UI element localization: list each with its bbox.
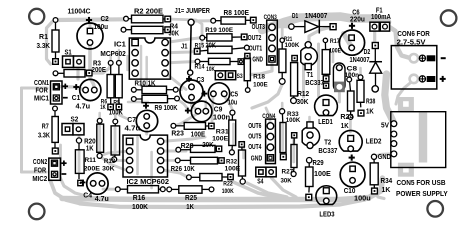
svg-text:C3: C3 bbox=[197, 77, 205, 84]
label OUT5 bbox=[248, 132, 261, 141]
capacitor C7 bbox=[125, 103, 158, 133]
mounting hole top-left bbox=[29, 9, 44, 24]
resistor R34 bbox=[370, 154, 392, 194]
wire trace CON2 right vertical bbox=[59, 145, 62, 172]
svg-text:100n: 100n bbox=[345, 72, 359, 79]
wire trace R32 interior bbox=[242, 142, 245, 158]
svg-text:OUT2: OUT2 bbox=[248, 33, 262, 42]
svg-text:20K: 20K bbox=[206, 42, 217, 49]
capacitor C1 bbox=[72, 79, 101, 110]
wire trace inside C6 bbox=[344, 34, 352, 48]
svg-text:220u: 220u bbox=[350, 15, 365, 24]
svg-text:1K: 1K bbox=[186, 204, 194, 211]
connector CON5 USB bbox=[378, 97, 448, 198]
wire trace C8 bottom down bbox=[338, 93, 341, 102]
svg-text:BC337: BC337 bbox=[305, 80, 324, 87]
svg-text:CON1: CON1 bbox=[34, 80, 49, 87]
jumper J1 bbox=[175, 6, 211, 75]
svg-text:1K: 1K bbox=[86, 145, 94, 152]
svg-text:R7: R7 bbox=[42, 121, 49, 130]
svg-text:10K: 10K bbox=[206, 66, 215, 73]
svg-text:IC1: IC1 bbox=[114, 39, 126, 48]
connector CON6 bbox=[391, 29, 445, 89]
wire trace R10 pad stub bbox=[176, 88, 182, 91]
jumper S1 bbox=[63, 50, 85, 68]
svg-text:3.3K: 3.3K bbox=[38, 130, 51, 139]
resistor R13 bbox=[102, 119, 120, 173]
wire trace R6 top stub bbox=[109, 55, 111, 61]
resistor R4 bbox=[121, 23, 179, 37]
diode D1 bbox=[289, 11, 336, 34]
wire trace IC1 pin to R19 bbox=[166, 38, 201, 43]
svg-text:20K: 20K bbox=[202, 142, 214, 149]
resistor R10 bbox=[131, 81, 178, 94]
wire trace MIC2 curve bbox=[58, 173, 88, 197]
svg-text:4.7u: 4.7u bbox=[76, 101, 91, 110]
wire trace USB tongue bbox=[419, 113, 427, 163]
svg-text:BC337: BC337 bbox=[318, 148, 337, 155]
resistor R2 bbox=[124, 6, 171, 23]
svg-text:R19 100E: R19 100E bbox=[205, 27, 233, 34]
resistor R7 bbox=[38, 106, 58, 154]
wire trace IC1 pin to R14 bbox=[166, 62, 197, 63]
svg-text:FOR: FOR bbox=[36, 88, 48, 95]
svg-text:R23: R23 bbox=[171, 130, 184, 137]
svg-text:100K: 100K bbox=[109, 109, 123, 116]
svg-text:1N4007: 1N4007 bbox=[305, 11, 328, 20]
capacitor C6 bbox=[339, 7, 365, 55]
resistor R25 bbox=[167, 186, 214, 211]
resistor R6 bbox=[100, 61, 114, 112]
diode D2 bbox=[350, 43, 383, 93]
wire trace C3 bottom bbox=[192, 99, 197, 109]
mounting hole top-right bbox=[441, 10, 457, 26]
wire trace C7 down bbox=[145, 127, 148, 134]
wire trace CON2 curve to bus bbox=[51, 181, 81, 204]
svg-text:100K: 100K bbox=[286, 117, 301, 124]
svg-text:S1: S1 bbox=[65, 50, 72, 57]
svg-text:R8 100E: R8 100E bbox=[224, 8, 250, 17]
svg-text:100mA: 100mA bbox=[371, 14, 391, 21]
wire trace 5V power band bbox=[385, 74, 394, 123]
label 11004C bbox=[68, 6, 91, 15]
svg-text:R31: R31 bbox=[216, 128, 229, 135]
svg-text:100K: 100K bbox=[285, 42, 300, 49]
wire trace left edge vertical bbox=[20, 88, 23, 172]
resistor R8 bbox=[211, 8, 256, 24]
svg-text:R1: R1 bbox=[39, 32, 48, 41]
wire trace R1 to R2 top band bbox=[56, 19, 125, 28]
svg-text:S3: S3 bbox=[237, 73, 243, 80]
svg-text:OUT5: OUT5 bbox=[248, 132, 261, 141]
LED LED3 bbox=[316, 186, 337, 219]
svg-text:MCP602: MCP602 bbox=[100, 49, 125, 58]
wire trace C9 right up bbox=[205, 101, 208, 108]
wire trace T1 left vertical bbox=[302, 64, 305, 97]
wire trace R24 pad down bbox=[349, 119, 352, 132]
svg-text:200E: 200E bbox=[84, 165, 101, 172]
resistor R15 bbox=[194, 42, 249, 54]
connector CON4 bbox=[262, 113, 275, 163]
wire trace IC1 pin to R15 bbox=[166, 51, 197, 52]
wire trace CON1 to C1 bbox=[56, 87, 83, 90]
svg-text:10u: 10u bbox=[228, 100, 237, 107]
svg-text:R9 100K: R9 100K bbox=[155, 103, 179, 112]
transistor T1 bbox=[301, 42, 324, 87]
svg-text:MIC1: MIC1 bbox=[34, 95, 49, 102]
svg-text:100n: 100n bbox=[213, 115, 230, 122]
mounting hole bottom-left bbox=[29, 204, 45, 220]
svg-text:1K: 1K bbox=[382, 187, 391, 194]
svg-text:4.7u: 4.7u bbox=[95, 194, 109, 203]
svg-text:100K: 100K bbox=[222, 188, 234, 195]
fuse F1 bbox=[370, 6, 391, 31]
wire trace IC1 interior b bbox=[145, 57, 148, 86]
svg-text:T1: T1 bbox=[307, 72, 314, 79]
resistor R29 bbox=[306, 158, 332, 201]
capacitor C9 bbox=[185, 101, 230, 122]
svg-text:CON5 FOR USB: CON5 FOR USB bbox=[397, 178, 446, 187]
wire trace D1 to CON3 bbox=[277, 25, 289, 28]
resistor R26 bbox=[171, 157, 224, 173]
resistor R33 bbox=[280, 109, 301, 160]
wire trace IC2 interior a bbox=[136, 137, 139, 174]
wire trace R34 to bus bbox=[375, 192, 385, 199]
svg-text:R25: R25 bbox=[185, 195, 197, 202]
resistor R22 bbox=[187, 174, 234, 195]
svg-text:R12: R12 bbox=[297, 91, 309, 98]
svg-text:T2: T2 bbox=[324, 140, 331, 147]
resistor R14 bbox=[195, 58, 244, 73]
svg-text:200E: 200E bbox=[92, 67, 107, 74]
resistor R23 bbox=[171, 123, 214, 139]
svg-text:C9: C9 bbox=[214, 107, 223, 114]
svg-text:R18: R18 bbox=[253, 74, 265, 81]
svg-text:R2 200E: R2 200E bbox=[134, 6, 163, 15]
wire trace IC2 to CON4 row2 bbox=[162, 150, 186, 153]
LED LED1 bbox=[315, 95, 338, 126]
resistor R38 bbox=[357, 75, 375, 116]
svg-text:R24: R24 bbox=[340, 114, 353, 121]
label OUT1 bbox=[249, 43, 263, 52]
svg-text:100E: 100E bbox=[191, 131, 206, 138]
svg-text:D2: D2 bbox=[364, 49, 371, 56]
svg-text:LED3: LED3 bbox=[319, 210, 334, 219]
wire trace C8 left stub bbox=[332, 52, 335, 62]
resistor R19 bbox=[200, 27, 247, 41]
wire trace F1 to CON6 bbox=[388, 26, 411, 58]
wire trace left CON1 stub bbox=[22, 87, 48, 90]
label OUT3 bbox=[252, 22, 265, 31]
wire trace bottom bus bbox=[62, 178, 383, 200]
svg-text:3.3K: 3.3K bbox=[37, 41, 51, 50]
wire trace R24 top stub bbox=[348, 70, 351, 77]
svg-text:R14: R14 bbox=[195, 64, 205, 71]
wire trace IC2 interior b bbox=[150, 152, 153, 188]
svg-text:R27: R27 bbox=[282, 168, 294, 175]
wire trace T1-R17 vertical bbox=[317, 44, 320, 96]
svg-text:100E: 100E bbox=[329, 48, 341, 55]
capacitor C2 bbox=[77, 14, 109, 49]
svg-text:R20: R20 bbox=[84, 138, 96, 145]
resistor R17 bbox=[322, 38, 341, 81]
wire trace R31 interior bbox=[232, 124, 235, 144]
svg-text:OUT6: OUT6 bbox=[248, 121, 261, 130]
resistor R16 bbox=[115, 186, 165, 211]
wire trace S1 down bbox=[76, 62, 79, 79]
op-amp IC2 bbox=[123, 135, 169, 186]
wire trace R13 top stub bbox=[114, 114, 117, 119]
wire trace IC2 left to R11 bbox=[100, 151, 129, 156]
op-amp IC1 bbox=[100, 38, 170, 79]
wire trace J1 to R8 pad bbox=[194, 19, 211, 22]
svg-text:1K: 1K bbox=[341, 123, 349, 130]
svg-text:100E: 100E bbox=[314, 171, 331, 178]
svg-text:R5: R5 bbox=[113, 99, 120, 106]
wire trace R20 interior bbox=[78, 150, 81, 172]
svg-text:100u: 100u bbox=[354, 194, 371, 203]
wire trace band to R21 bbox=[281, 24, 284, 38]
jumper S2 bbox=[62, 117, 84, 135]
transistor T2 bbox=[302, 122, 337, 155]
svg-text:OUT4: OUT4 bbox=[248, 142, 261, 151]
resistor R21 bbox=[279, 36, 300, 84]
wire trace left CON2 stub bbox=[22, 171, 47, 174]
wire trace IC1 interior a bbox=[140, 46, 143, 86]
svg-text:S2: S2 bbox=[71, 117, 79, 124]
wire trace R27 interior bbox=[292, 138, 295, 162]
svg-text:J1: J1 bbox=[181, 44, 188, 51]
svg-text:C5: C5 bbox=[231, 92, 239, 99]
wire trace left of R1 bbox=[47, 22, 53, 64]
wire trace R3 to R6 bbox=[89, 64, 111, 73]
svg-text:R17: R17 bbox=[330, 38, 340, 45]
resistor R12 bbox=[291, 56, 310, 107]
wire trace C5 to R31 diag bbox=[224, 96, 232, 110]
wire trace S2 to R20 bbox=[78, 134, 81, 139]
capacitor C5 bbox=[201, 83, 238, 107]
connector CON1 bbox=[34, 80, 68, 104]
resistor R24 bbox=[340, 77, 354, 130]
svg-text:100u: 100u bbox=[94, 22, 109, 31]
resistor R20 bbox=[75, 138, 95, 186]
wire trace F1 left to D2 bbox=[373, 29, 376, 42]
svg-text:R11: R11 bbox=[85, 157, 97, 164]
svg-text:R38: R38 bbox=[366, 99, 375, 106]
svg-text:R29: R29 bbox=[313, 160, 324, 167]
wire trace IC1 left edge stub bbox=[126, 56, 129, 70]
label OUT4 bbox=[248, 142, 261, 151]
svg-text:R13: R13 bbox=[104, 158, 116, 165]
svg-text:R10 1K: R10 1K bbox=[135, 81, 156, 88]
svg-text:GND: GND bbox=[378, 152, 391, 161]
resistor R28 bbox=[176, 142, 222, 153]
svg-text:FOR: FOR bbox=[34, 167, 46, 174]
jumper S4 bbox=[256, 167, 276, 185]
svg-text:IC2 MCP602: IC2 MCP602 bbox=[127, 177, 170, 186]
wire trace C4 to R16 bbox=[103, 188, 116, 191]
svg-text:100E: 100E bbox=[225, 166, 241, 173]
resistor R11 bbox=[84, 118, 104, 172]
label GND CON3 bbox=[252, 55, 263, 64]
svg-text:11004C: 11004C bbox=[68, 6, 91, 15]
wire trace R5 bottom down bbox=[119, 109, 128, 119]
wire trace R2 right to J1 area bbox=[168, 19, 203, 44]
svg-text:30K: 30K bbox=[281, 178, 292, 185]
connector CON3 bbox=[264, 14, 278, 65]
svg-text:100K: 100K bbox=[132, 204, 148, 211]
wire trace J1 pad down bbox=[189, 74, 192, 80]
svg-text:J1= JUMPER: J1= JUMPER bbox=[175, 6, 211, 15]
svg-text:OUT1: OUT1 bbox=[249, 43, 263, 52]
svg-text:R28: R28 bbox=[181, 143, 194, 150]
capacitor C3 bbox=[180, 76, 204, 103]
svg-text:5V: 5V bbox=[381, 120, 389, 129]
svg-text:GND: GND bbox=[252, 55, 263, 64]
svg-text:1K: 1K bbox=[366, 109, 374, 116]
capacitor C10 bbox=[340, 155, 371, 203]
resistor R27 bbox=[281, 133, 298, 185]
wire trace CON6 to USB 5V bbox=[396, 80, 414, 104]
wire trace R33 interior bbox=[281, 124, 284, 150]
resistor R5 bbox=[109, 61, 123, 117]
wire trace C9 to R23 diag bbox=[176, 114, 197, 126]
svg-text:R22: R22 bbox=[223, 181, 233, 188]
svg-text:D1: D1 bbox=[292, 11, 298, 20]
svg-text:R16: R16 bbox=[133, 195, 146, 202]
resistor R3 bbox=[53, 60, 106, 77]
jumper S3 bbox=[215, 71, 243, 80]
wire trace C2 to C1 bbox=[90, 44, 94, 88]
wire trace IC2 left to R13 bbox=[115, 159, 130, 160]
svg-text:R26 10K: R26 10K bbox=[171, 166, 195, 173]
svg-text:100E: 100E bbox=[212, 136, 229, 143]
wire trace T1 top up bbox=[309, 27, 333, 43]
capacitor C4 bbox=[80, 173, 109, 203]
svg-text:2.7-5.5V: 2.7-5.5V bbox=[397, 37, 426, 46]
resistor R18 bbox=[244, 53, 268, 92]
svg-text:LED2: LED2 bbox=[366, 137, 382, 146]
wire trace top-right power band bbox=[262, 17, 387, 31]
capacitor C8 bbox=[333, 63, 359, 92]
svg-text:LED1: LED1 bbox=[318, 117, 332, 126]
svg-text:100E: 100E bbox=[253, 82, 268, 89]
wire trace R21 diag bbox=[252, 84, 282, 108]
wire trace IC1 pin4 to C3 diag bbox=[166, 73, 187, 89]
svg-text:R4: R4 bbox=[170, 23, 179, 30]
wire trace diag S4 bus 1 bbox=[231, 181, 278, 198]
svg-text:CON4: CON4 bbox=[262, 113, 275, 120]
svg-text:C4: C4 bbox=[83, 193, 92, 200]
wire trace GND pin to R34 bbox=[375, 154, 394, 157]
svg-text:S4: S4 bbox=[257, 179, 263, 186]
wire trace R33 top stub bbox=[281, 103, 284, 109]
resistor R31 bbox=[212, 110, 236, 155]
wire trace diag S4 bus 2 bbox=[247, 183, 287, 197]
wire trace IC2 right low bbox=[162, 170, 188, 177]
svg-text:POWER SUPPLY: POWER SUPPLY bbox=[396, 189, 448, 198]
resistor R32 bbox=[225, 142, 246, 184]
LED LED2 bbox=[339, 130, 381, 151]
wire trace left of R9 bbox=[128, 101, 148, 104]
wire trace IC2 to CON4 row1 bbox=[162, 137, 205, 141]
wire trace S4 to bus bbox=[272, 178, 297, 197]
mounting hole bottom-right bbox=[427, 201, 443, 217]
svg-text:GND: GND bbox=[251, 154, 262, 163]
wire trace IC2 to R26 row bbox=[162, 159, 176, 162]
wire trace T2 top stub bbox=[308, 117, 311, 122]
svg-text:R32: R32 bbox=[226, 158, 237, 165]
svg-text:R34: R34 bbox=[381, 178, 393, 185]
wire trace CON3 gnd down bbox=[251, 63, 272, 75]
svg-text:MIC2: MIC2 bbox=[32, 176, 47, 183]
wire trace R38 top stub bbox=[359, 68, 362, 75]
svg-text:CON3: CON3 bbox=[264, 14, 277, 21]
wire trace diag to CON4 pin1 bbox=[266, 108, 270, 123]
wire trace R13 interior bbox=[114, 128, 117, 154]
wire trace lower bottom bus bbox=[80, 194, 374, 208]
label OUT6 bbox=[248, 121, 261, 130]
wire trace R11 interior bbox=[98, 126, 101, 151]
resistor R1 bbox=[37, 18, 60, 65]
svg-text:30K: 30K bbox=[169, 31, 180, 38]
wire trace R11 top stub bbox=[98, 113, 101, 119]
svg-text:CON2: CON2 bbox=[33, 159, 47, 166]
svg-text:4.7u: 4.7u bbox=[125, 124, 141, 133]
node pad below BC337 bbox=[324, 83, 329, 88]
svg-text:OUT3: OUT3 bbox=[252, 22, 265, 31]
wire trace R11 pad diag to IC2 bbox=[100, 156, 126, 170]
svg-text:30K: 30K bbox=[102, 166, 115, 173]
svg-text:1K: 1K bbox=[100, 104, 106, 111]
resistor R9 bbox=[131, 95, 179, 112]
wire trace R9 pad diag bbox=[177, 99, 187, 108]
connector CON2 bbox=[32, 158, 66, 183]
svg-text:1N4007: 1N4007 bbox=[350, 57, 370, 64]
wire trace R5 top stub bbox=[118, 50, 120, 61]
label OUT2 bbox=[248, 33, 262, 42]
wire trace C5 to R23 vertical bbox=[212, 97, 213, 123]
svg-text:30K: 30K bbox=[297, 99, 309, 106]
label GND CON4 bbox=[251, 154, 262, 163]
svg-text:R15: R15 bbox=[195, 43, 205, 50]
